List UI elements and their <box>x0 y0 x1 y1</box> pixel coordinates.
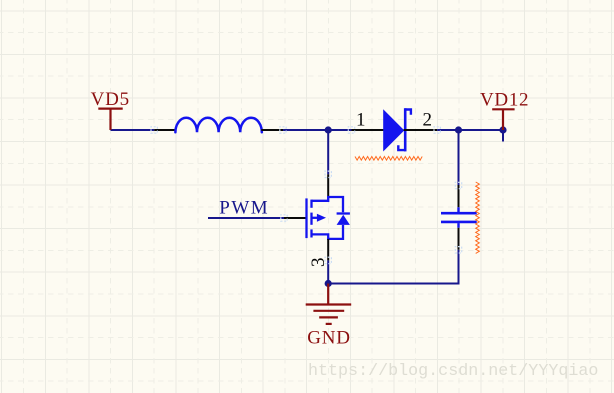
inductor L pin 1 <box>154 129 175 131</box>
inductor L pin 2 <box>261 129 283 131</box>
error marker zigzag under diode <box>355 157 422 161</box>
svg-text:VD5: VD5 <box>91 89 130 110</box>
capacitor C <box>441 207 477 228</box>
transistor Q gate pin <box>284 217 307 219</box>
power port VD12 <box>492 109 514 130</box>
wire stub below VD12 <box>502 130 504 142</box>
transistor Q body diode <box>337 215 350 225</box>
diode D pin 2 <box>404 129 438 131</box>
capacitor C pin 1 <box>458 185 460 207</box>
wire source to node C <box>327 260 329 283</box>
node C junction <box>325 280 332 287</box>
capacitor C pin 2 <box>458 228 460 250</box>
svg-text:https://blog.csdn.net/YYYqiao: https://blog.csdn.net/YYYqiao <box>308 362 598 381</box>
wire PWM net <box>208 217 284 219</box>
node A junction <box>325 126 332 133</box>
wire VD5 to inductor <box>111 129 155 131</box>
ground GND power object <box>306 284 352 324</box>
svg-text:PWM: PWM <box>219 198 269 219</box>
wire diode to node B <box>437 129 503 131</box>
svg-text:1: 1 <box>356 110 366 131</box>
node B junction <box>455 126 462 133</box>
node VD12 junction <box>499 126 506 133</box>
error marker zigzag right of capacitor <box>476 182 480 253</box>
power port VD5 <box>98 109 122 130</box>
transistor Q substrate arrow <box>317 214 326 222</box>
wire inductor to node A <box>283 129 352 131</box>
svg-text:GND: GND <box>307 328 351 349</box>
inductor L coil <box>175 118 261 133</box>
svg-text:3: 3 <box>308 257 329 267</box>
diode D (Schottky) body <box>383 108 411 151</box>
svg-text:VD12: VD12 <box>480 89 529 110</box>
pin hotspot markers <box>151 127 462 264</box>
wire node A down to mosfet drain <box>327 130 329 174</box>
diode D pin 1 <box>352 129 384 131</box>
wire bottom run <box>328 250 458 284</box>
transistor Q drain pin <box>327 174 329 197</box>
svg-text:2: 2 <box>423 110 433 131</box>
transistor Q source pin <box>327 239 329 261</box>
wire node B down to capacitor <box>458 130 460 185</box>
transistor Q (NMOS with body diode) <box>307 197 350 239</box>
